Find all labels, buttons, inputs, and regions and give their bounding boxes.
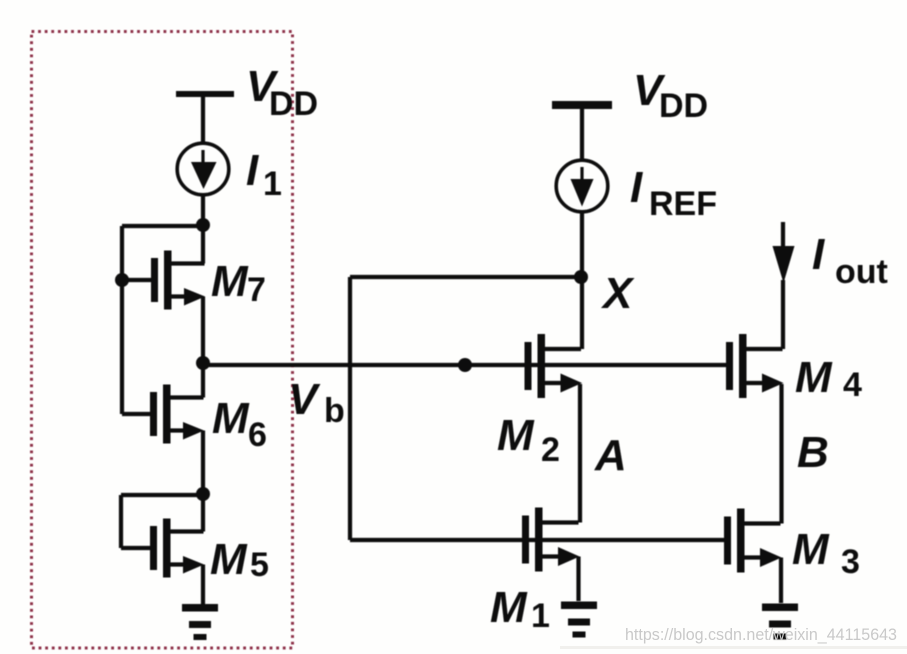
svg-text:M: M (210, 535, 248, 584)
svg-text:REF: REF (649, 185, 717, 223)
svg-text:M: M (211, 257, 249, 306)
svg-text:https://blog.csdn.net/weixin_4: https://blog.csdn.net/weixin_44115643 (625, 626, 897, 644)
svg-text:V: V (288, 375, 321, 424)
svg-text:M: M (792, 525, 830, 574)
svg-text:DD: DD (269, 85, 318, 123)
svg-text:B: B (797, 428, 829, 477)
svg-text:4: 4 (843, 366, 862, 404)
svg-text:2: 2 (541, 431, 560, 469)
svg-text:3: 3 (841, 543, 860, 581)
svg-text:I: I (812, 230, 825, 279)
svg-text:A: A (594, 431, 627, 480)
svg-text:M: M (795, 353, 833, 402)
svg-text:M: M (212, 394, 250, 443)
svg-text:X: X (600, 269, 635, 318)
svg-text:5: 5 (250, 546, 269, 584)
svg-text:M: M (497, 411, 535, 460)
svg-text:7: 7 (247, 271, 266, 309)
svg-text:6: 6 (248, 416, 267, 454)
svg-text:1: 1 (263, 165, 282, 203)
svg-text:out: out (835, 253, 888, 291)
svg-text:I: I (630, 163, 643, 212)
svg-text:DD: DD (659, 87, 708, 125)
svg-text:I: I (246, 146, 259, 195)
svg-text:b: b (324, 392, 345, 430)
svg-text:1: 1 (531, 597, 550, 635)
svg-text:M: M (490, 583, 528, 632)
